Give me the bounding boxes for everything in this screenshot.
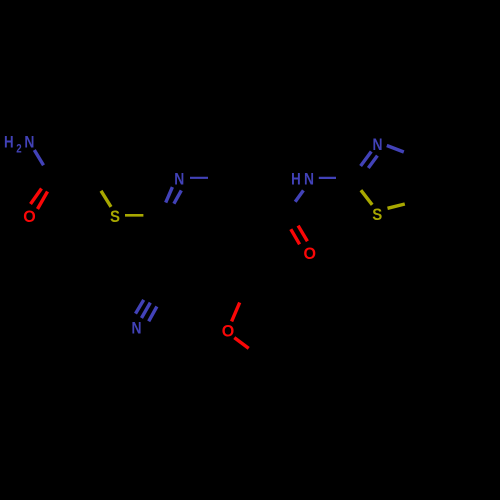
svg-text:O: O — [23, 207, 36, 226]
svg-text:O: O — [304, 244, 317, 263]
svg-text:S: S — [372, 205, 382, 224]
svg-text:N: N — [132, 319, 142, 338]
svg-text:N: N — [174, 170, 184, 189]
svg-text:H: H — [4, 132, 14, 151]
svg-text:N: N — [373, 135, 383, 154]
svg-text:H: H — [291, 169, 301, 188]
svg-text:2: 2 — [16, 142, 22, 156]
svg-text:S: S — [110, 207, 120, 226]
svg-text:N: N — [24, 132, 34, 151]
svg-text:N: N — [304, 169, 314, 188]
svg-text:O: O — [222, 322, 235, 341]
